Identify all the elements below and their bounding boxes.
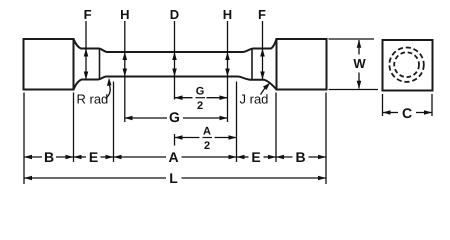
- dimension F left: shaft and arrowheads: [85, 21, 87, 80]
- dimension F right: shaft and arrowheads: [262, 21, 264, 80]
- svg-text:D: D: [170, 7, 179, 22]
- dimension C: extension lines: [382, 94, 384, 116]
- svg-text:G: G: [196, 86, 205, 98]
- svg-text:H: H: [120, 7, 129, 22]
- dimension A: [114, 156, 167, 158]
- svg-text:A: A: [168, 149, 178, 165]
- svg-text:L: L: [169, 170, 178, 186]
- end-view square (C section): [383, 40, 433, 91]
- extension line right grip inner (x=276): [275, 93, 277, 163]
- dimension L: [24, 177, 166, 179]
- svg-text:B: B: [44, 149, 54, 165]
- svg-text:R rad: R rad: [77, 92, 109, 107]
- svg-text:B: B: [295, 149, 305, 165]
- section boundary line left shoulder: [99, 49, 101, 80]
- extension line A right (x=236.5): [236, 82, 238, 163]
- dimension C: arrows: [383, 112, 399, 114]
- dimension A/2: [175, 137, 200, 139]
- dimension D: shaft, arrowheads, lower tick: [174, 21, 176, 100]
- svg-text:A: A: [203, 126, 211, 138]
- svg-text:2: 2: [197, 100, 203, 112]
- end-view outer dashed circle: [389, 47, 423, 81]
- svg-text:F: F: [84, 7, 92, 22]
- dimension W: extension lines: [329, 38, 375, 40]
- dimension E left: [74, 156, 87, 158]
- specimen left grip end: [24, 39, 74, 90]
- specimen reduced-section top profile (fillets, shoulders, taper, gauge): [74, 39, 277, 52]
- dimension H right: shaft and arrowheads: [227, 21, 229, 122]
- svg-text:G: G: [169, 109, 180, 125]
- svg-text:2: 2: [204, 140, 210, 152]
- svg-text:E: E: [251, 149, 260, 165]
- dimension B left: [24, 156, 42, 158]
- dimension W: arrow line and arrowheads: [358, 40, 360, 55]
- extension line right end (x=326): [325, 93, 327, 185]
- dimension G: [125, 117, 168, 119]
- svg-text:W: W: [353, 56, 366, 71]
- dimension G/2: [175, 97, 193, 99]
- svg-text:F: F: [258, 7, 266, 22]
- end-view inner dashed circle: [394, 52, 419, 77]
- dimension B right: [276, 156, 293, 158]
- specimen right grip end: [277, 39, 327, 90]
- section boundary line right shoulder: [251, 49, 253, 80]
- svg-text:C: C: [402, 105, 412, 121]
- extension line left grip inner (x=73.5): [73, 93, 75, 163]
- svg-text:E: E: [89, 149, 98, 165]
- extension line left end (x=24): [23, 93, 25, 185]
- dimension H left: shaft and arrowheads: [124, 21, 126, 122]
- specimen reduced-section bottom profile: [74, 77, 277, 90]
- extension line A left (x=113.5): [113, 82, 115, 163]
- dimension E right: [237, 156, 249, 158]
- svg-text:H: H: [223, 7, 232, 22]
- svg-text:J rad: J rad: [240, 92, 269, 107]
